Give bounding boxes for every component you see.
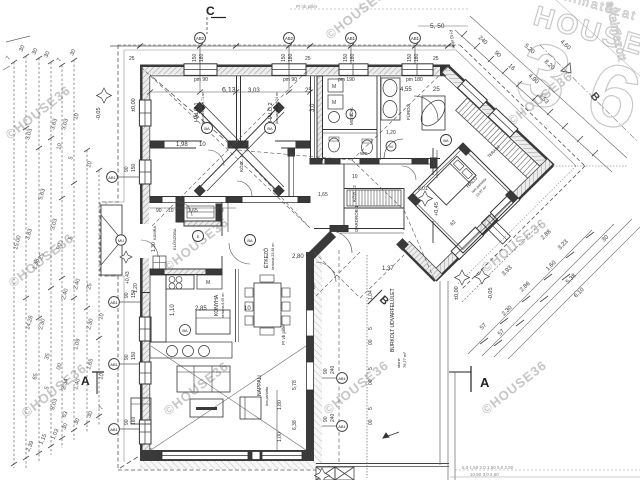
svg-text:-0,05: -0,05 xyxy=(488,287,494,300)
svg-text:AB1: AB1 xyxy=(108,175,116,180)
left dim tick marks xyxy=(11,54,102,466)
window W3 xyxy=(339,64,368,76)
corner post dark xyxy=(440,65,450,76)
svg-text:1,65: 1,65 xyxy=(318,192,328,198)
bottom wall dark band xyxy=(140,450,314,461)
porch star xyxy=(120,251,132,263)
wing/garderob boundary wall xyxy=(432,148,434,175)
bottom glass door gaps xyxy=(162,452,248,460)
svg-text:lam.parketta 9,71 m²: lam.parketta 9,71 m² xyxy=(201,91,205,124)
left dim labels xyxy=(5,44,105,452)
dining dashed X xyxy=(314,252,404,298)
svg-text:1,00: 1,00 xyxy=(277,432,283,442)
dim line v1 xyxy=(13,62,15,468)
slope arrow terrace xyxy=(383,432,399,438)
bottom hatch strip outside xyxy=(140,461,316,469)
bath west wall xyxy=(310,76,312,160)
section letter C top xyxy=(206,4,226,34)
door node entry xyxy=(193,231,204,242)
svg-text:90: 90 xyxy=(156,208,162,214)
ticks xyxy=(137,44,451,49)
NE window B xyxy=(488,108,518,137)
living furniture xyxy=(131,366,261,424)
corridor east wall xyxy=(288,148,295,196)
svg-text:1,98: 1,98 xyxy=(176,142,188,148)
section letter A left xyxy=(81,372,104,394)
svg-text:kerámia 8,05 m²: kerámia 8,05 m² xyxy=(221,292,225,318)
svg-text:3,03: 3,03 xyxy=(248,88,260,94)
wardrobe wing xyxy=(481,215,510,244)
lower left wall xyxy=(140,302,143,462)
dashed hip lines interior xyxy=(237,67,448,281)
window W2 xyxy=(272,64,306,76)
top wall hatch xyxy=(141,67,449,74)
left wall hatch xyxy=(143,67,150,210)
svg-text:10: 10 xyxy=(218,208,224,214)
svg-text:KÖZL. 1: KÖZL. 1 xyxy=(238,155,244,172)
svg-text:pm 190: pm 190 xyxy=(338,77,355,83)
door node wing xyxy=(441,135,452,146)
svg-text:AB1: AB1 xyxy=(110,300,118,305)
svg-text:±0,00: ±0,00 xyxy=(454,286,460,300)
SE eave dashed xyxy=(462,166,585,289)
svg-text:90: 90 xyxy=(124,419,130,425)
svg-text:25: 25 xyxy=(129,56,135,62)
bedrooms south wall xyxy=(150,140,202,142)
svg-text:90: 90 xyxy=(323,416,329,422)
svg-text:+0,43: +0,43 xyxy=(125,271,131,284)
window W4 xyxy=(402,64,433,76)
small dark post at reentrant corner xyxy=(396,238,409,251)
left wall outer line xyxy=(140,65,143,211)
svg-text:A: A xyxy=(480,375,490,390)
left window LW1 xyxy=(139,100,151,126)
svg-text:AB2: AB2 xyxy=(196,36,205,41)
node AB2 a xyxy=(195,33,206,76)
left AB nodes xyxy=(107,163,140,434)
svg-text:6,13: 6,13 xyxy=(222,87,236,94)
svg-text:KONYHA: KONYHA xyxy=(214,294,220,316)
bath south wall xyxy=(310,158,440,160)
svg-text:AB1: AB1 xyxy=(110,427,118,432)
svg-text:150: 150 xyxy=(131,163,137,172)
porch outline xyxy=(101,205,122,275)
dim line v5 xyxy=(61,65,63,448)
svg-text:5: 5 xyxy=(368,327,374,330)
left wall lower segment above kitchen xyxy=(140,258,149,302)
svg-text:1,65: 1,65 xyxy=(188,208,198,214)
terrace hatch strip xyxy=(456,98,540,179)
eave dashed top xyxy=(118,44,460,46)
svg-text:10: 10 xyxy=(199,142,206,148)
door gap porch xyxy=(141,240,158,257)
corridor east wall of entry xyxy=(221,202,223,236)
svg-text:BA: BA xyxy=(204,126,210,131)
svg-text:KÖZL. 2: KÖZL. 2 xyxy=(351,185,357,202)
room labels xyxy=(152,91,411,406)
node AB1 b xyxy=(410,33,421,76)
bottom AB nodes xyxy=(277,290,374,442)
dim line v6 xyxy=(73,60,75,440)
svg-text:150: 150 xyxy=(407,53,413,62)
door arcs xyxy=(178,96,438,282)
svg-text:M: M xyxy=(389,144,392,149)
hip dash bottom-left xyxy=(120,448,152,468)
svg-text:ÉTKEZŐ: ÉTKEZŐ xyxy=(263,248,270,268)
svg-text:C: C xyxy=(206,4,215,18)
east wall window gaps xyxy=(307,310,314,336)
svg-text:FÜRDŐ: FÜRDŐ xyxy=(405,104,411,120)
top connector ticks xyxy=(6,36,30,42)
svg-text:1,04: 1,04 xyxy=(368,290,374,300)
dim line v8 xyxy=(98,170,100,425)
bedroom interior dim line xyxy=(147,76,313,95)
svg-text:90: 90 xyxy=(124,166,130,172)
chamfer wall top xyxy=(306,231,336,259)
svg-text:P! vb pillér: P! vb pillér xyxy=(281,323,286,345)
svg-text:M: M xyxy=(206,280,210,286)
wing room label xyxy=(464,144,501,198)
bath block west wall xyxy=(317,76,323,160)
svg-text:10,50 3,0 2,50: 10,50 3,0 2,50 xyxy=(470,472,499,477)
garderob walls xyxy=(344,188,404,190)
svg-text:M: M xyxy=(332,84,336,90)
svg-text:1,30: 1,30 xyxy=(151,242,157,252)
svg-text:AB1: AB1 xyxy=(110,362,118,367)
kamra closet walls xyxy=(176,197,184,222)
lower window LW4 xyxy=(139,362,151,384)
door node circle haló1 xyxy=(202,123,213,134)
svg-text:5: 5 xyxy=(368,367,374,370)
svg-text:5,78: 5,78 xyxy=(292,380,298,390)
section letter B mid xyxy=(368,290,391,308)
svg-text:KAMRA: KAMRA xyxy=(152,225,157,240)
bed (rotated) xyxy=(427,156,476,205)
svg-text:P! nb pillér: P! nb pillér xyxy=(296,4,318,9)
svg-text:AB1: AB1 xyxy=(347,36,356,41)
bath partition 2 xyxy=(376,76,378,160)
svg-text:180: 180 xyxy=(199,53,205,62)
svg-text:240: 240 xyxy=(330,413,336,422)
svg-text:25: 25 xyxy=(433,87,440,93)
svg-text:AB2: AB2 xyxy=(285,36,294,41)
left window LW2 xyxy=(139,160,151,184)
svg-text:180: 180 xyxy=(350,53,356,62)
garderob stripes xyxy=(347,190,401,206)
svg-text:180: 180 xyxy=(414,53,420,62)
left wall inner line xyxy=(149,76,151,200)
door node circle haló2 xyxy=(265,123,276,134)
svg-text:1,20: 1,20 xyxy=(133,283,139,293)
watermark HOUSE36 tiled xyxy=(3,0,576,420)
door node dining xyxy=(229,235,256,265)
logo HOUSE 36 outline top right xyxy=(507,0,640,156)
svg-text:6,38: 6,38 xyxy=(292,420,298,430)
window W1 xyxy=(184,64,217,76)
interior dim texts xyxy=(125,87,458,345)
top window size labels xyxy=(129,4,456,112)
svg-text:AB1: AB1 xyxy=(338,376,346,381)
svg-text:00: 00 xyxy=(368,419,374,425)
level markers xyxy=(96,88,494,480)
svg-text:1,10: 1,10 xyxy=(170,304,176,316)
svg-text:lam.parketta: lam.parketta xyxy=(265,387,269,406)
svg-text:HÁLÓ 1: HÁLÓ 1 xyxy=(193,102,200,122)
svg-text:M: M xyxy=(332,100,336,106)
svg-text:76,77 m²: 76,77 m² xyxy=(402,352,407,368)
kitchen north wall xyxy=(150,269,222,275)
bottom eave dashed xyxy=(118,469,316,471)
terrace bottom double line xyxy=(316,463,449,465)
svg-text:pm 180: pm 180 xyxy=(406,77,423,83)
svg-text:00: 00 xyxy=(368,379,374,385)
svg-text:±0,00: ±0,00 xyxy=(131,98,137,112)
svg-text:180: 180 xyxy=(288,53,294,62)
lower window LW5 xyxy=(139,420,151,444)
svg-text:160: 160 xyxy=(131,416,137,425)
svg-text:pm 90: pm 90 xyxy=(194,77,208,83)
svg-text:GARDRÓB 1: GARDRÓB 1 xyxy=(353,205,359,232)
wing re-entrant wall xyxy=(396,238,442,281)
svg-text:A: A xyxy=(81,374,90,388)
svg-text:AB1: AB1 xyxy=(338,424,346,429)
svg-text:E: E xyxy=(197,234,200,239)
node AB2 b xyxy=(284,33,295,76)
SE wall band drawn directly xyxy=(428,158,554,282)
bedroom divider wall xyxy=(236,76,238,141)
dim line v7 xyxy=(86,150,88,432)
svg-text:150: 150 xyxy=(131,351,137,360)
east wall dark segments xyxy=(306,252,314,310)
svg-text:ELŐSZOBA: ELŐSZOBA xyxy=(172,228,177,250)
svg-text:10: 10 xyxy=(352,174,358,180)
svg-text:2,01: 2,01 xyxy=(418,186,428,192)
NE wall hatch xyxy=(442,67,553,172)
east hatch strip outside xyxy=(314,252,322,463)
svg-text:lam.parketta 9,74 m²: lam.parketta 9,74 m² xyxy=(275,91,279,124)
bedroom walls xyxy=(408,143,518,253)
svg-text:25: 25 xyxy=(305,56,311,62)
svg-text:90: 90 xyxy=(323,368,329,374)
dark wall chunks at bedroom corners xyxy=(408,143,518,206)
svg-text:150: 150 xyxy=(343,53,349,62)
svg-text:WC: WC xyxy=(360,151,368,156)
top wall inner line xyxy=(150,75,448,77)
dim line v4 xyxy=(50,62,52,455)
svg-text:MU: MU xyxy=(118,238,124,243)
entry fixtures xyxy=(153,206,214,269)
svg-text:HÁLÓ 2: HÁLÓ 2 xyxy=(267,102,274,122)
lower window LW3 xyxy=(139,317,151,341)
bottom vertical dim lines xyxy=(277,250,455,480)
svg-text:10: 10 xyxy=(244,306,251,312)
terrace label xyxy=(389,288,407,368)
node AB1 a xyxy=(346,33,357,76)
porch node MU xyxy=(116,235,126,245)
dining table xyxy=(245,275,290,335)
dim line v3 xyxy=(38,58,40,462)
svg-text:AB1: AB1 xyxy=(411,36,420,41)
NE eave dashed xyxy=(460,45,585,166)
left eave dashed xyxy=(100,45,118,470)
svg-text:kerámia 23,48 m²: kerámia 23,48 m² xyxy=(271,242,275,270)
SE window A xyxy=(451,227,483,259)
svg-text:NAPPALI: NAPPALI xyxy=(257,375,263,396)
top wall outer line xyxy=(140,65,450,68)
section letter A right xyxy=(449,366,490,392)
svg-text:1,80: 1,80 xyxy=(277,400,283,410)
svg-text:+0,45: +0,45 xyxy=(434,202,440,216)
garderob south wall xyxy=(314,228,404,230)
svg-text:00: 00 xyxy=(368,339,374,345)
svg-text:150: 150 xyxy=(192,53,198,62)
svg-text:stone: stone xyxy=(396,357,401,368)
svg-text:25: 25 xyxy=(433,56,439,62)
svg-text:5, 50: 5, 50 xyxy=(430,23,445,30)
svg-text:MOSÓK.: MOSÓK. xyxy=(348,107,354,125)
long roof hip dashes across bedroom block xyxy=(141,67,310,228)
entry inner dim line xyxy=(150,207,236,209)
porch bottom wall xyxy=(140,292,150,294)
hip dash top-left xyxy=(141,67,232,146)
svg-text:2,85: 2,85 xyxy=(195,306,207,312)
svg-text:BA: BA xyxy=(182,328,188,333)
faint bottom edge line xyxy=(462,465,514,477)
svg-text:240: 240 xyxy=(330,365,336,374)
left wall mid segment xyxy=(140,210,149,224)
svg-text:10: 10 xyxy=(168,208,174,214)
svg-text:BA: BA xyxy=(267,126,273,131)
kitchen counters xyxy=(150,275,232,358)
svg-text:150: 150 xyxy=(281,53,287,62)
planter X boxes xyxy=(316,467,354,480)
section letter B right xyxy=(540,45,638,142)
svg-text:1,20: 1,20 xyxy=(386,130,396,136)
svg-text:BURKOLT UDVARFELÜLET: BURKOLT UDVARFELÜLET xyxy=(389,288,396,352)
faint top edge dim line xyxy=(290,3,470,9)
svg-text:5,0 1,50 2,0 1,50 5,0 2,5: 5,0 1,50 2,0 1,50 5,0 2,50 xyxy=(462,465,514,470)
top dim line xyxy=(110,45,455,47)
svg-text:90: 90 xyxy=(124,292,130,298)
svg-text:4,55: 4,55 xyxy=(400,87,412,93)
svg-text:BA: BA xyxy=(443,138,449,143)
svg-text:90: 90 xyxy=(124,354,130,360)
bath partition mid horizontal xyxy=(322,129,377,131)
entry south wall xyxy=(150,196,310,198)
bath fixtures xyxy=(328,78,450,158)
svg-text:2,80: 2,80 xyxy=(292,254,304,260)
kitchen dining divider xyxy=(235,269,237,342)
NE window A xyxy=(458,79,488,108)
SE window B xyxy=(490,192,520,221)
dim line v2 xyxy=(25,56,27,468)
svg-text:pm 90: pm 90 xyxy=(283,77,297,83)
svg-text:-0,05: -0,05 xyxy=(96,107,102,120)
svg-text:BA: BA xyxy=(247,238,253,243)
svg-text:5: 5 xyxy=(368,407,374,410)
plinth thin line xyxy=(106,50,576,462)
svg-text:1,37: 1,37 xyxy=(382,266,394,272)
NE wall outer line xyxy=(447,65,554,166)
